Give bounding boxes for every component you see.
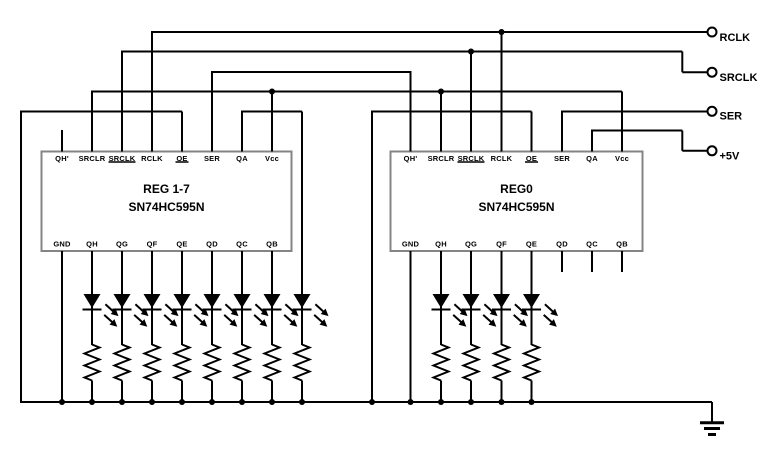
svg-text:QD: QD	[556, 240, 568, 249]
svg-text:QH': QH'	[55, 154, 69, 163]
svg-text:SRCLR: SRCLR	[79, 154, 106, 163]
svg-text:QE: QE	[176, 240, 187, 249]
svg-text:SRCLR: SRCLR	[428, 154, 455, 163]
svg-text:QE: QE	[526, 240, 537, 249]
svg-text:SER: SER	[554, 154, 570, 163]
svg-text:RCLK: RCLK	[720, 32, 751, 44]
svg-text:Vcc: Vcc	[265, 154, 279, 163]
svg-text:QA: QA	[236, 154, 248, 163]
svg-text:QA: QA	[586, 154, 598, 163]
svg-text:SN74HC595N: SN74HC595N	[478, 200, 554, 214]
svg-text:QG: QG	[116, 240, 128, 249]
svg-text:SER: SER	[204, 154, 220, 163]
svg-text:QH: QH	[86, 240, 98, 249]
svg-text:QB: QB	[266, 240, 278, 249]
svg-text:SER: SER	[720, 111, 743, 123]
svg-text:QC: QC	[586, 240, 598, 249]
svg-text:QH': QH'	[404, 154, 418, 163]
svg-text:SRCLK: SRCLK	[720, 72, 758, 84]
svg-text:QF: QF	[147, 240, 158, 249]
svg-text:REG0: REG0	[500, 182, 533, 196]
svg-text:RCLK: RCLK	[491, 154, 513, 163]
svg-text:QG: QG	[465, 240, 477, 249]
svg-text:SN74HC595N: SN74HC595N	[128, 200, 204, 214]
svg-text:QC: QC	[236, 240, 248, 249]
svg-text:QD: QD	[206, 240, 218, 249]
svg-text:+5V: +5V	[720, 151, 741, 163]
svg-text:Vcc: Vcc	[615, 154, 629, 163]
svg-text:QB: QB	[616, 240, 628, 249]
svg-text:RCLK: RCLK	[141, 154, 163, 163]
svg-text:GND: GND	[53, 240, 71, 249]
svg-text:QH: QH	[435, 240, 447, 249]
svg-text:QF: QF	[496, 240, 507, 249]
svg-text:REG 1-7: REG 1-7	[143, 182, 190, 196]
svg-text:GND: GND	[402, 240, 420, 249]
